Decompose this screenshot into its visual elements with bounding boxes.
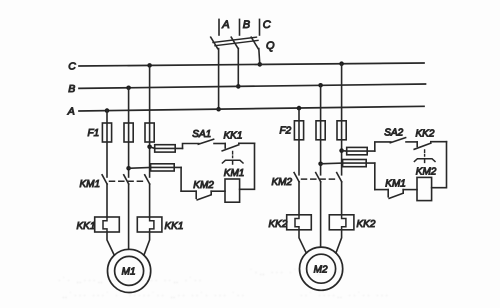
svg-text:A: A: [221, 19, 229, 31]
svg-text:SA1: SA1: [192, 129, 211, 140]
svg-text:F1: F1: [88, 128, 100, 139]
svg-text:KK2: KK2: [416, 129, 435, 140]
svg-text:B: B: [68, 83, 75, 95]
svg-text:KK1: KK1: [165, 221, 184, 232]
svg-text:M1: M1: [122, 267, 136, 278]
svg-text:KM1: KM1: [80, 179, 101, 190]
svg-text:A: A: [67, 105, 75, 117]
svg-text:F2: F2: [280, 126, 292, 137]
svg-text:KM2: KM2: [193, 180, 214, 191]
svg-text:SA2: SA2: [384, 128, 403, 139]
svg-text:KM2: KM2: [272, 177, 293, 188]
svg-text:Q: Q: [266, 40, 275, 52]
svg-text:M2: M2: [314, 265, 328, 276]
svg-text:KK2: KK2: [269, 219, 288, 230]
svg-text:KM1: KM1: [385, 178, 406, 189]
svg-text:C: C: [68, 61, 76, 73]
svg-text:KK1: KK1: [77, 221, 96, 232]
svg-text:KK1: KK1: [224, 130, 243, 141]
svg-text:KK2: KK2: [357, 219, 376, 230]
svg-text:C: C: [263, 19, 271, 31]
svg-text:KM2: KM2: [416, 167, 437, 178]
svg-text:B: B: [243, 19, 250, 31]
svg-text:KM1: KM1: [224, 168, 245, 179]
